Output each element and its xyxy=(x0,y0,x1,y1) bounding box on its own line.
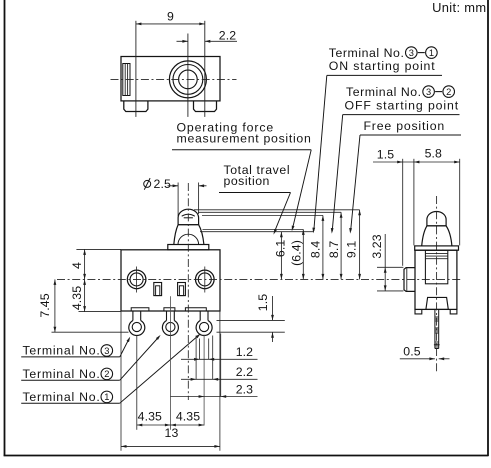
dimension 4.35 extension left xyxy=(136,336,138,430)
unit label xyxy=(432,0,486,15)
main horizontal center line xyxy=(57,278,462,280)
side view protrusion xyxy=(404,268,415,292)
svg-text:1: 1 xyxy=(429,48,434,58)
leader terminal no3 xyxy=(120,337,130,357)
front view left mounting hole xyxy=(127,267,146,293)
svg-text:(6.4): (6.4) xyxy=(290,240,304,266)
label operating force xyxy=(172,121,311,150)
svg-text:position: position xyxy=(224,174,270,188)
side view terminal pin xyxy=(434,309,440,348)
front view bottom notch middle xyxy=(164,308,175,311)
top view horizontal center line xyxy=(111,78,237,80)
dimension 9 extension line left xyxy=(135,21,137,117)
dimension dia2.5 extension lines xyxy=(178,183,199,217)
front plunger bell xyxy=(174,225,204,245)
svg-text:9.1: 9.1 xyxy=(345,241,359,258)
side view bottom block xyxy=(426,297,448,309)
svg-text:Free position: Free position xyxy=(364,119,446,133)
on point extension line xyxy=(202,214,323,216)
svg-text:2.3: 2.3 xyxy=(236,382,253,396)
terminal detail extension lines xyxy=(196,334,221,426)
svg-text:2: 2 xyxy=(446,87,451,97)
top view left hatch panel xyxy=(123,64,130,96)
svg-text:13: 13 xyxy=(165,426,179,440)
dimension 3.23 xyxy=(370,234,387,291)
dimension 0.5 xyxy=(400,344,450,360)
dimension 6.1 xyxy=(274,232,288,280)
dimension 2.3 xyxy=(170,382,258,398)
svg-text:3: 3 xyxy=(426,87,431,97)
dimension 8.7 xyxy=(327,212,343,279)
svg-text:measurement position: measurement position xyxy=(177,131,312,145)
terminal 2 lug xyxy=(162,311,178,335)
dimension 1.5 right xyxy=(256,294,274,342)
leader terminal no2 xyxy=(120,335,161,380)
dimension (6.4) xyxy=(290,229,305,279)
front view right mounting hole xyxy=(196,267,215,293)
dimension 9 extension line right xyxy=(204,21,206,117)
dimension 3.23 extension lines xyxy=(377,267,403,291)
dimension 4 xyxy=(70,249,86,279)
leader free position xyxy=(349,135,360,234)
border frame bottom xyxy=(4,455,489,457)
svg-text:3.23: 3.23 xyxy=(370,234,384,258)
label terminal no1 xyxy=(21,390,120,404)
dimension 1.5 side xyxy=(373,148,414,164)
svg-text:4.35: 4.35 xyxy=(138,410,162,424)
side view body xyxy=(415,250,457,309)
svg-text:2.5: 2.5 xyxy=(154,177,171,191)
svg-text:6.1: 6.1 xyxy=(274,240,288,257)
svg-text:9: 9 xyxy=(167,10,174,24)
leader terminal 3-2 xyxy=(331,115,343,234)
leader terminal no1 xyxy=(120,334,201,404)
label free position xyxy=(360,119,461,135)
dimension 4.35 extension middle xyxy=(169,296,171,430)
front view left window xyxy=(154,283,162,296)
top view left foot xyxy=(124,101,148,112)
free position extension line xyxy=(194,209,360,211)
svg-text:3: 3 xyxy=(104,346,109,356)
svg-text:4: 4 xyxy=(70,262,84,269)
front plunger cap xyxy=(178,209,199,225)
dimension 1.2 xyxy=(181,345,258,361)
total travel 6.4 extension line xyxy=(203,228,304,230)
svg-text:ON starting point: ON starting point xyxy=(329,59,436,73)
side plunger cap xyxy=(427,211,446,225)
svg-text:7.45: 7.45 xyxy=(38,293,52,317)
top view plunger circles xyxy=(169,61,206,98)
svg-text:1.5: 1.5 xyxy=(377,148,394,162)
dimension 1.5 right extension lines xyxy=(217,320,285,332)
dimension 2.2 terminal xyxy=(181,365,258,381)
dimension dia2.5 xyxy=(144,177,207,191)
svg-text:Unit: mm: Unit: mm xyxy=(432,0,486,15)
leader terminal 3-1 xyxy=(312,75,326,233)
svg-text:8.4: 8.4 xyxy=(308,241,322,258)
dimension 4.35 left xyxy=(70,279,86,311)
top view body xyxy=(121,57,220,101)
top view right foot xyxy=(194,101,217,112)
svg-text:Terminal No.: Terminal No. xyxy=(329,46,405,60)
side plunger bell xyxy=(422,226,452,246)
front plunger inner arc xyxy=(178,234,199,244)
svg-text:4.35: 4.35 xyxy=(176,410,200,424)
front plunger cap marks xyxy=(182,214,195,218)
label total travel xyxy=(219,163,291,192)
dimension 13 xyxy=(121,426,220,448)
dimension 13 extension lines xyxy=(121,311,220,451)
dimension 2.2 xyxy=(177,29,238,43)
border frame right xyxy=(487,0,489,456)
front view bottom notch left xyxy=(131,308,149,311)
dimension 9 xyxy=(136,10,205,26)
side view vertical center line xyxy=(436,196,438,374)
dimension 7.45 xyxy=(38,279,56,332)
dimension 4.35 extension line xyxy=(79,311,122,313)
svg-text:2.2: 2.2 xyxy=(236,365,253,379)
svg-text:3: 3 xyxy=(409,48,414,58)
side view right foot xyxy=(450,309,457,314)
side dim extension lines xyxy=(403,159,460,266)
svg-text:Terminal No.: Terminal No. xyxy=(23,390,101,404)
svg-text:4.35: 4.35 xyxy=(70,286,84,310)
leader operating force xyxy=(292,150,311,231)
svg-text:2.2: 2.2 xyxy=(219,29,236,43)
svg-text:2: 2 xyxy=(104,369,109,379)
terminal 3 lug xyxy=(129,311,145,335)
dimension 4.35 pair xyxy=(137,410,204,427)
front view body xyxy=(121,250,220,311)
off point extension line xyxy=(198,211,341,213)
dimension 7.45 bottom extension xyxy=(52,331,129,333)
dimension 9.1 xyxy=(345,210,361,280)
side view left foot xyxy=(415,309,422,314)
svg-text:Terminal No.: Terminal No. xyxy=(23,344,101,358)
front plunger collar xyxy=(168,245,209,250)
dimension 5.8 xyxy=(414,147,460,164)
label terminal 3-2 OFF xyxy=(343,85,460,115)
top view vertical center line xyxy=(187,34,189,117)
svg-text:OFF starting point: OFF starting point xyxy=(345,99,460,113)
label terminal no3 xyxy=(21,344,120,358)
label terminal no2 xyxy=(21,367,120,381)
svg-text:Terminal No.: Terminal No. xyxy=(346,85,422,99)
front view right window xyxy=(178,283,186,296)
front view center line xyxy=(187,183,189,400)
front view bottom notch right xyxy=(185,308,206,311)
svg-text:5.8: 5.8 xyxy=(425,147,442,161)
svg-text:8.7: 8.7 xyxy=(327,241,341,258)
dimension 8.4 xyxy=(308,215,324,279)
svg-text:1: 1 xyxy=(104,392,109,402)
label terminal 3-1 ON xyxy=(327,46,442,75)
terminal 1 lug xyxy=(196,311,212,335)
leader total travel xyxy=(274,193,291,235)
svg-text:Terminal No.: Terminal No. xyxy=(23,367,101,381)
side view inner window xyxy=(425,250,447,283)
svg-text:0.5: 0.5 xyxy=(403,344,420,358)
svg-text:1.2: 1.2 xyxy=(236,345,253,359)
total travel 6.1 extension line xyxy=(200,231,314,233)
border frame left xyxy=(4,0,6,456)
dimension 4 extension line xyxy=(76,248,121,250)
svg-text:1.5: 1.5 xyxy=(256,294,270,311)
side view collar xyxy=(415,246,459,250)
